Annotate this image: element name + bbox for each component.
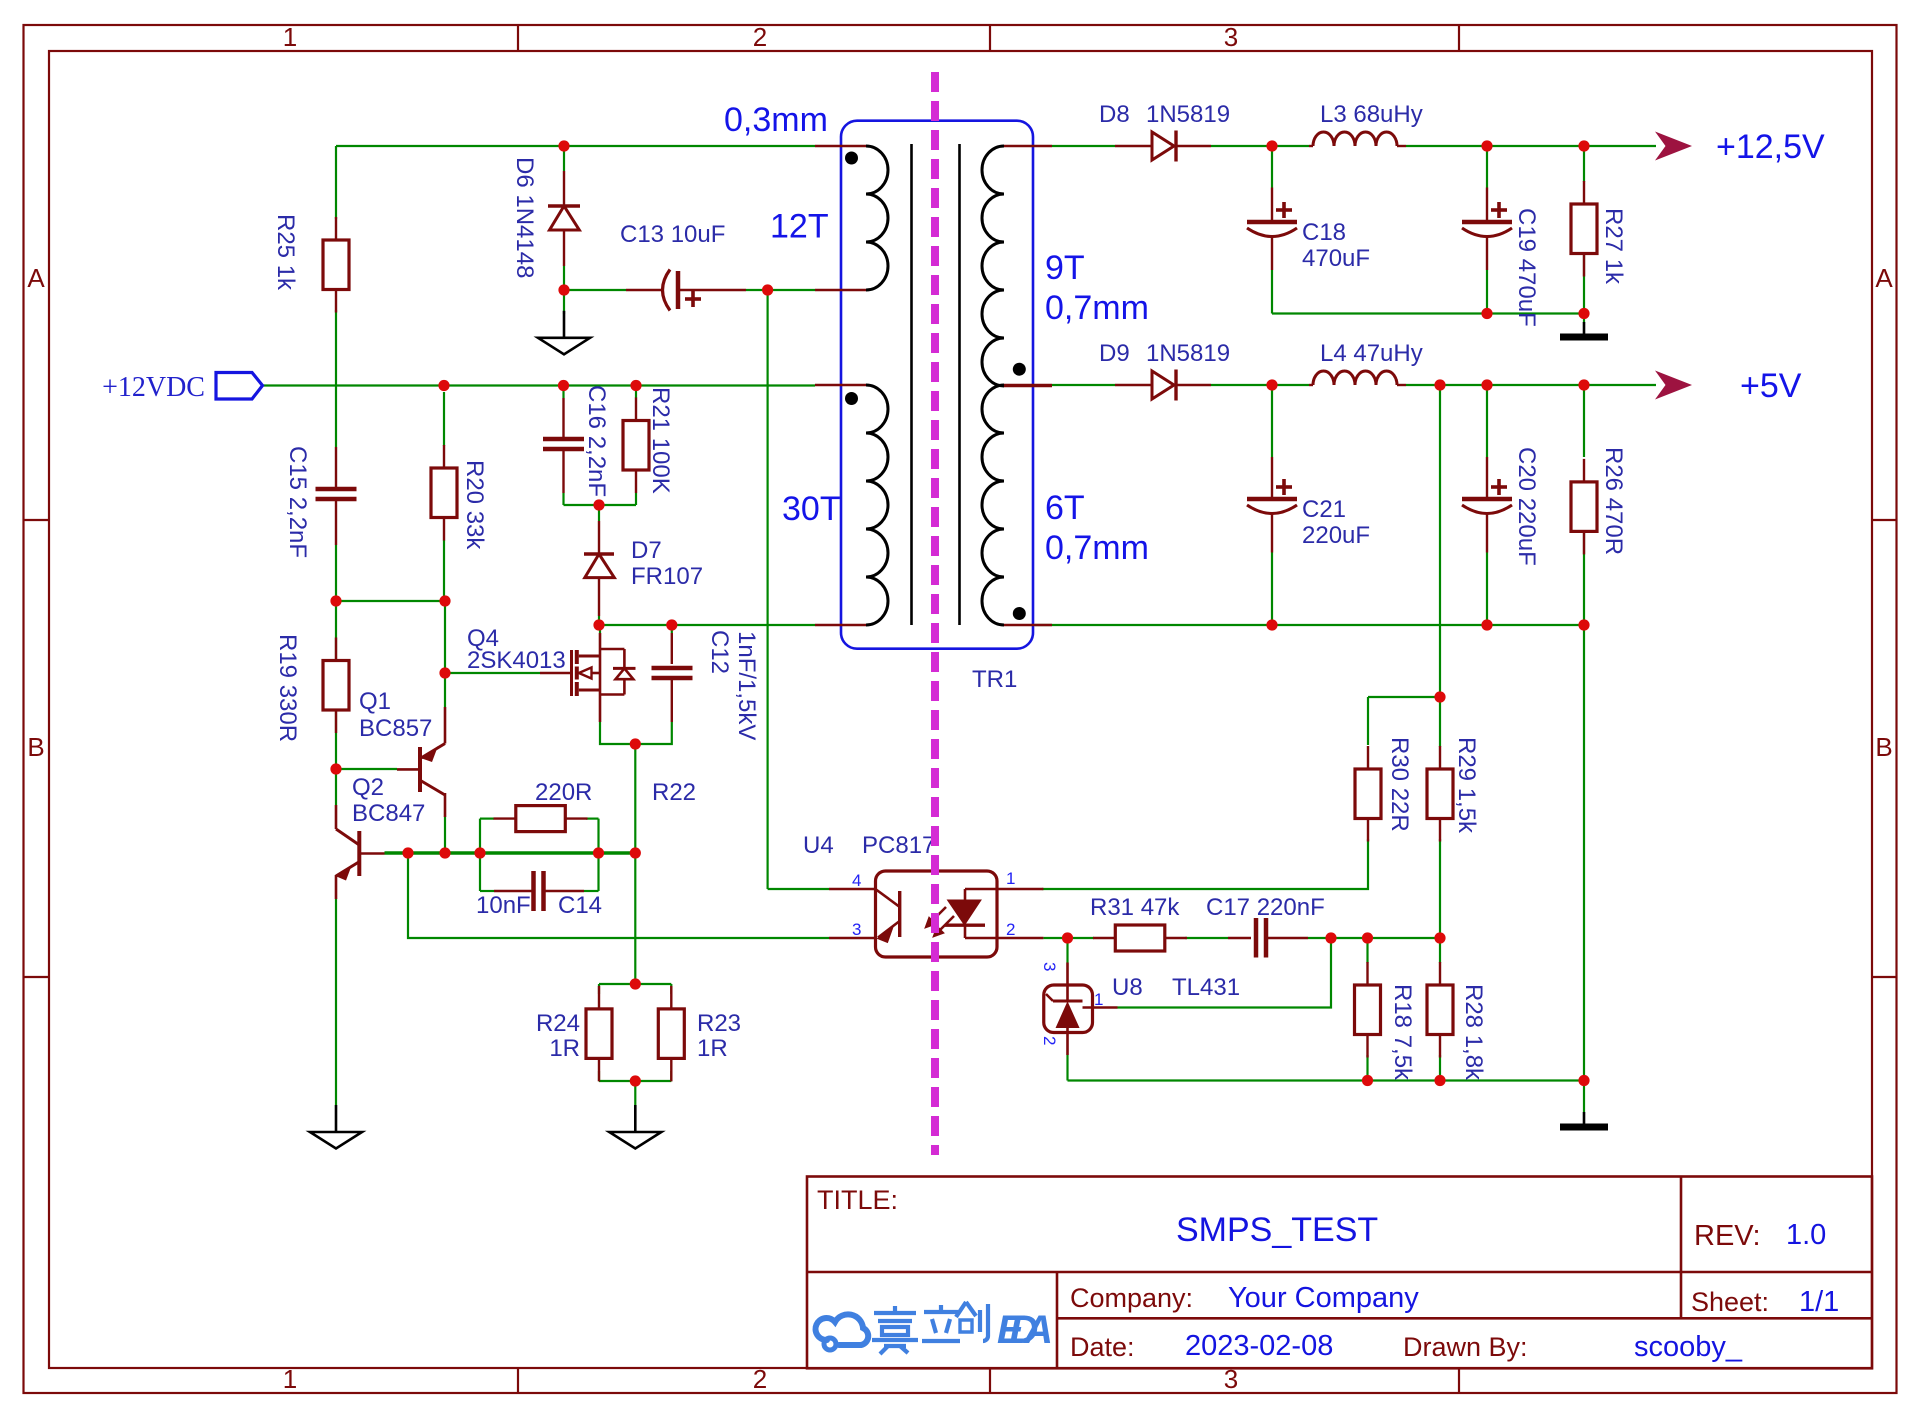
svg-text:R27 1k: R27 1k — [1600, 208, 1627, 285]
svg-text:C14: C14 — [558, 892, 602, 919]
wire Q1 collector down — [444, 817, 446, 853]
svg-text:3: 3 — [1224, 22, 1238, 52]
svg-text:Drawn By:: Drawn By: — [1403, 1332, 1528, 1362]
wire Q2 emitter to gnd — [335, 899, 337, 1105]
wire 9T bottom to D9 — [1052, 384, 1115, 386]
svg-text:R29 1,5k: R29 1,5k — [1453, 737, 1480, 834]
svg-text:1nF/1,5kV: 1nF/1,5kV — [733, 631, 760, 740]
wire top aux rail 0,3mm net — [336, 145, 815, 147]
resistor R30 — [1355, 746, 1381, 842]
wire R25 to C15 — [335, 310, 337, 447]
svg-text:scooby_: scooby_ — [1634, 1331, 1743, 1363]
wire Q4 drain stub — [599, 625, 601, 633]
node gate tap — [439, 667, 450, 678]
svg-text:220R: 220R — [535, 779, 592, 806]
wire R30 top bracket — [1368, 696, 1440, 698]
svg-text:1: 1 — [1006, 869, 1015, 888]
svg-text:TITLE:: TITLE: — [817, 1185, 898, 1215]
wire D7 bottom — [598, 616, 600, 625]
wire Q1 node rail — [336, 600, 445, 602]
svg-text:+5V: +5V — [1740, 367, 1802, 405]
svg-text:Q2: Q2 — [352, 774, 384, 801]
capacitor C13 (polarized horizontal) — [626, 270, 746, 311]
svg-text:R19 330R: R19 330R — [274, 634, 301, 742]
node D6-aux — [558, 140, 569, 151]
wire +5V sense riser — [1439, 385, 1441, 697]
node R28 gnd — [1434, 1075, 1445, 1086]
svg-text:D7: D7 — [631, 537, 662, 564]
wire bottom gnd rail — [1068, 1079, 1585, 1081]
svg-text:Company:: Company: — [1070, 1283, 1193, 1313]
wire Q2 base rail — [385, 851, 637, 855]
phase dot 6T — [1013, 607, 1026, 620]
capacitor C19 — [1462, 188, 1512, 271]
svg-text:C21: C21 — [1302, 496, 1346, 523]
transistor Q1 (BC857 PNP) — [397, 707, 445, 817]
node C13 left — [558, 284, 569, 295]
wire R23 top stub — [670, 984, 672, 994]
wire C13 right to 12T bottom — [746, 289, 815, 291]
capacitor C20 — [1462, 457, 1512, 553]
wire R27 top — [1583, 146, 1585, 182]
wire Q1 emitter lead — [444, 601, 446, 707]
svg-text:Sheet:: Sheet: — [1691, 1287, 1769, 1317]
svg-text:R31 47k: R31 47k — [1090, 894, 1180, 921]
capacitor C16 — [543, 398, 584, 493]
resistor R20 — [431, 445, 457, 541]
wire to U4 pin3 — [408, 853, 829, 938]
ground gnd1 (under D6) — [538, 311, 590, 355]
wire riser to R24-R23 — [634, 744, 636, 984]
resistor R21 — [623, 398, 649, 494]
transformer core lines — [910, 144, 913, 625]
wire to gnd2 — [634, 1081, 636, 1105]
node R22C14 left — [474, 847, 485, 858]
svg-text:FR107: FR107 — [631, 563, 703, 590]
transformer winding 12T — [815, 146, 888, 290]
wire 9T to D8 — [1052, 145, 1115, 147]
wire Q4 source / C12 bottom bracket — [600, 722, 672, 744]
wire C19 top — [1486, 146, 1488, 188]
ground gnd3 (12V return) — [1560, 322, 1608, 337]
svg-text:6T: 6T — [1045, 489, 1085, 527]
svg-text:R24: R24 — [536, 1010, 580, 1037]
svg-text:1N5819: 1N5819 — [1146, 340, 1230, 367]
transistor Q2 (BC847 NPN, mirrored) — [336, 805, 385, 899]
wire R18 bottom — [1366, 1055, 1368, 1081]
title block frame — [807, 1177, 1872, 1369]
wire R23 bottom stub — [670, 1071, 672, 1081]
svg-text:Date:: Date: — [1070, 1332, 1135, 1362]
wire R19 column — [335, 601, 337, 805]
node C19 tap — [1481, 140, 1492, 151]
wire C13 left — [564, 289, 626, 291]
wire fb node rail — [1331, 937, 1440, 939]
node R18 gnd — [1362, 1075, 1373, 1086]
wire R26 to gnd rail — [1583, 553, 1585, 626]
wire R28 top stub — [1439, 962, 1441, 964]
svg-text:D8: D8 — [1099, 101, 1130, 128]
wire D7 top — [598, 505, 600, 521]
inductor L4 — [1309, 371, 1406, 385]
wire R24 top stub — [598, 984, 600, 994]
svg-text:L3 68uHy: L3 68uHy — [1320, 101, 1423, 128]
wire U8 cathode — [1066, 938, 1068, 963]
wire R24-R23 bottom bracket — [599, 1080, 671, 1082]
svg-text:D6 1N4148: D6 1N4148 — [511, 157, 538, 278]
svg-text:Your Company: Your Company — [1228, 1282, 1419, 1314]
node R18 top — [1362, 932, 1373, 943]
node Q1C-Q2B — [439, 847, 450, 858]
node R27 gnd — [1578, 308, 1589, 319]
svg-text:3: 3 — [1040, 962, 1059, 971]
wire U8 anode — [1066, 1055, 1068, 1081]
svg-text:470uF: 470uF — [1302, 245, 1370, 272]
svg-text:0,3mm: 0,3mm — [724, 101, 828, 139]
wire C14 right stub — [584, 890, 599, 892]
svg-text:2: 2 — [753, 22, 767, 52]
capacitor C14 — [494, 871, 584, 911]
wire R21 bottom — [635, 493, 637, 505]
svg-text:BC857: BC857 — [359, 715, 432, 742]
inductor L3 — [1309, 132, 1406, 146]
capacitor C21 — [1247, 457, 1297, 553]
node rail end — [630, 847, 641, 858]
wire to U4 pin4 — [768, 888, 829, 890]
wire R24-R23 top bracket — [599, 983, 671, 985]
wire C20 top — [1486, 385, 1488, 457]
svg-text:C16 2,2nF: C16 2,2nF — [583, 385, 610, 497]
wire R22-C14 right bracket — [597, 819, 599, 891]
svg-text:1N5819: 1N5819 — [1146, 101, 1230, 128]
logo JLC text — [872, 1302, 988, 1354]
svg-text:1R: 1R — [549, 1035, 580, 1062]
svg-text:R21 100K: R21 100K — [647, 387, 674, 494]
net flag +12,5V arrow — [1655, 132, 1692, 161]
svg-text:B: B — [1875, 732, 1892, 762]
wire R27 bottom stub — [1583, 253, 1585, 272]
node R26 gnd — [1578, 619, 1589, 630]
resistor R27 — [1571, 181, 1597, 277]
svg-text:R18 7,5k: R18 7,5k — [1389, 984, 1416, 1081]
wire C16 bottom — [562, 493, 564, 505]
wire C18 top — [1271, 146, 1273, 188]
wire R28 bottom — [1439, 1055, 1441, 1081]
capacitor C12 — [652, 633, 693, 722]
node R25-Q1 — [330, 595, 341, 606]
transformer TR1 box — [841, 121, 1033, 649]
svg-text:2023-02-08: 2023-02-08 — [1185, 1330, 1333, 1362]
wire C18 bottom — [1271, 270, 1273, 314]
node C12 top — [666, 619, 677, 630]
svg-text:C13 10uF: C13 10uF — [620, 221, 725, 248]
svg-text:TL431: TL431 — [1172, 974, 1240, 1001]
wire D6 to C13 node — [563, 266, 565, 290]
svg-text:+12VDC: +12VDC — [102, 372, 205, 403]
wire D6 top green — [563, 146, 565, 171]
svg-text:EDA: EDA — [997, 1308, 1053, 1352]
svg-text:4: 4 — [852, 871, 861, 890]
wire R31 to C17 — [1185, 937, 1228, 939]
wire D9 to L4 — [1211, 384, 1309, 386]
wire C16 top — [562, 388, 564, 398]
capacitor C18 — [1247, 188, 1297, 271]
wire C20 bottom — [1486, 553, 1488, 626]
node C21 tap — [1266, 379, 1277, 390]
diode D8 — [1115, 131, 1211, 162]
transformer winding 30T — [815, 385, 888, 625]
svg-text:R23: R23 — [697, 1010, 741, 1037]
svg-text:A: A — [1875, 263, 1893, 293]
svg-text:220uF: 220uF — [1302, 522, 1370, 549]
node R24R23 top — [630, 978, 641, 989]
svg-text:C18: C18 — [1302, 219, 1346, 246]
svg-text:+12,5V: +12,5V — [1716, 128, 1825, 166]
phase dot 12T — [845, 152, 858, 165]
node D7 top — [593, 499, 604, 510]
svg-text:U8: U8 — [1112, 974, 1143, 1001]
ground gnd5 (Q2 emitter) — [310, 1105, 362, 1149]
node gnd rail corner — [1578, 1075, 1589, 1086]
wire fb to U8 ref — [1118, 938, 1332, 1008]
svg-text:1.0: 1.0 — [1786, 1219, 1826, 1251]
node fb-C17 — [1325, 932, 1336, 943]
wire L4 to +5V flag — [1406, 384, 1656, 386]
node C13 right — [762, 284, 773, 295]
transformer winding 9T — [982, 146, 1052, 386]
node R21 tap — [630, 380, 641, 391]
wire R21 top — [635, 388, 637, 398]
transformer winding 6T — [982, 385, 1052, 625]
resistor R31 — [1093, 925, 1187, 951]
resistor R28 — [1427, 962, 1453, 1058]
svg-text:30T: 30T — [782, 490, 841, 528]
svg-text:PC817: PC817 — [862, 832, 935, 859]
net flag +5V arrow — [1655, 371, 1692, 400]
svg-text:1: 1 — [283, 22, 297, 52]
wire D6 gnd stub — [563, 290, 565, 314]
svg-text:Q1: Q1 — [359, 688, 391, 715]
diode D9 — [1115, 370, 1211, 401]
transistor Q4 (2SK4013 N-MOSFET) — [540, 633, 636, 722]
resistor R25 — [323, 217, 349, 313]
wire U4 pin2 to R31 — [1043, 937, 1094, 939]
svg-text:C17 220nF: C17 220nF — [1206, 894, 1325, 921]
resistor R26 — [1571, 459, 1597, 555]
node C18 tap — [1266, 140, 1277, 151]
shunt regulator U8 TL431 — [1044, 963, 1118, 1056]
wire primary switch-node rail — [599, 624, 815, 626]
svg-text:R22: R22 — [652, 779, 696, 806]
wire R28 top — [1439, 938, 1441, 963]
diode D6 — [548, 171, 580, 266]
wire R29 top — [1439, 697, 1441, 747]
node R27 tap — [1578, 140, 1589, 151]
wire R20 bottom — [443, 540, 445, 601]
optocoupler U4 PC817 — [829, 871, 1043, 957]
svg-text:2: 2 — [1040, 1036, 1059, 1045]
svg-text:2: 2 — [753, 1364, 767, 1394]
node C20 tap — [1481, 379, 1492, 390]
diode D7 — [584, 521, 614, 616]
svg-text:B: B — [27, 732, 44, 762]
resistor R24 — [586, 986, 612, 1082]
svg-text:1R: 1R — [697, 1035, 728, 1062]
ground gnd2 (R24-R23) — [609, 1105, 661, 1149]
node pin3 tap — [402, 847, 413, 858]
svg-text:R28 1,8k: R28 1,8k — [1460, 984, 1487, 1081]
wire C14 left stub — [480, 890, 494, 892]
wire C21 top — [1271, 385, 1273, 457]
wire aux riser to opto — [766, 290, 768, 889]
node fb divider — [1434, 932, 1445, 943]
svg-text:0,7mm: 0,7mm — [1045, 289, 1149, 327]
wire C19 bottom — [1486, 270, 1488, 314]
svg-text:REV:: REV: — [1694, 1220, 1761, 1252]
wire R29 bottom — [1439, 839, 1441, 938]
svg-text:A: A — [27, 263, 45, 293]
wire R25 top — [335, 146, 337, 219]
svg-text:2SK4013: 2SK4013 — [467, 647, 566, 674]
wire secondary gnd riser — [1583, 625, 1585, 1081]
svg-text:C20 220uF: C20 220uF — [1513, 447, 1540, 566]
svg-text:0,7mm: 0,7mm — [1045, 529, 1149, 567]
wire R24 bottom stub — [598, 1071, 600, 1081]
svg-text:R30 22R: R30 22R — [1386, 737, 1413, 832]
wire Q1 base — [336, 768, 397, 770]
wire to gnd4 — [1583, 1081, 1585, 1113]
svg-text:10nF: 10nF — [476, 892, 531, 919]
svg-text:2: 2 — [1006, 920, 1015, 939]
resistor R23 — [658, 986, 684, 1082]
node C20 gnd — [1481, 619, 1492, 630]
wire C12 top stub — [671, 625, 673, 633]
node C19 gnd — [1481, 308, 1492, 319]
wire 6T bottom rail left — [1035, 624, 1272, 626]
node C16 tap — [558, 380, 569, 391]
wire Q4 gate — [445, 672, 540, 674]
svg-text:C19 470uF: C19 470uF — [1513, 208, 1540, 327]
svg-text:9T: 9T — [1045, 249, 1085, 287]
svg-text:TR1: TR1 — [972, 666, 1017, 693]
node R22C14 right — [593, 847, 604, 858]
svg-text:R26 470R: R26 470R — [1600, 447, 1627, 555]
wire C17 right — [1308, 937, 1331, 939]
node R30-R29 top — [1434, 691, 1445, 702]
node R20 tap — [438, 380, 449, 391]
wire R22 right stub — [586, 817, 599, 819]
wire R30 top — [1367, 697, 1369, 745]
resistor R29 — [1427, 746, 1453, 842]
wire R18 top — [1366, 938, 1368, 963]
node C21 gnd — [1266, 619, 1277, 630]
wire R26 top — [1583, 385, 1585, 457]
svg-text:R20 33k: R20 33k — [461, 460, 488, 550]
svg-text:1: 1 — [283, 1364, 297, 1394]
resistor R18 — [1355, 962, 1381, 1058]
wire R30 to U4 pin1 — [1042, 839, 1368, 889]
node sense tap — [1434, 379, 1445, 390]
phase dot 30T — [845, 392, 858, 405]
node U8 cathode-R31 — [1062, 932, 1073, 943]
wire R20 top — [443, 392, 445, 446]
wire R26 bottom stub — [1583, 531, 1585, 552]
port +12VDC — [216, 373, 263, 400]
svg-text:3: 3 — [852, 920, 861, 939]
node Q1 base — [330, 763, 341, 774]
svg-text:12T: 12T — [770, 208, 829, 246]
resistor R22 — [494, 806, 588, 832]
wire secondary gnd rail — [1272, 624, 1584, 626]
isolation barrier dashed line — [931, 72, 939, 1155]
wire R22-C14 left bracket — [479, 819, 481, 891]
ground gnd4 (secondary) — [1560, 1112, 1608, 1127]
svg-text:1/1: 1/1 — [1799, 1286, 1839, 1318]
svg-text:BC847: BC847 — [352, 800, 425, 827]
node R24R23 bottom — [630, 1075, 641, 1086]
node Q4 drain — [593, 619, 604, 630]
phase dot 9T — [1013, 363, 1026, 376]
resistor R19 — [323, 638, 349, 734]
capacitor C17 — [1228, 918, 1308, 958]
logo EasyEDA cloud — [816, 1314, 869, 1350]
wire 12V gnd rail — [1272, 312, 1584, 314]
svg-text:C12: C12 — [706, 630, 733, 674]
node R26 tap — [1578, 379, 1589, 390]
svg-text:R25 1k: R25 1k — [272, 214, 299, 291]
wire R22 left stub — [480, 817, 494, 819]
svg-text:1: 1 — [1094, 990, 1103, 1009]
node source-C12 — [630, 738, 641, 749]
wire +12VDC rail — [263, 384, 816, 386]
wire C21 bottom — [1271, 553, 1273, 626]
wire C15 to node — [335, 545, 337, 601]
svg-text:SMPS_TEST: SMPS_TEST — [1176, 1211, 1378, 1249]
wire to gnd3 — [1583, 272, 1585, 323]
wire D8 to L3 — [1211, 145, 1309, 147]
capacitor C15 — [316, 447, 357, 545]
wire L3 to +12,5V flag — [1406, 145, 1656, 147]
svg-text:U4: U4 — [803, 832, 834, 859]
svg-text:D9: D9 — [1099, 340, 1130, 367]
svg-text:C15 2,2nF: C15 2,2nF — [284, 446, 311, 558]
wire C16-R21 bottom bracket — [564, 504, 637, 506]
svg-text:L4 47uHy: L4 47uHy — [1320, 340, 1423, 367]
node Q1 emitter — [439, 595, 450, 606]
